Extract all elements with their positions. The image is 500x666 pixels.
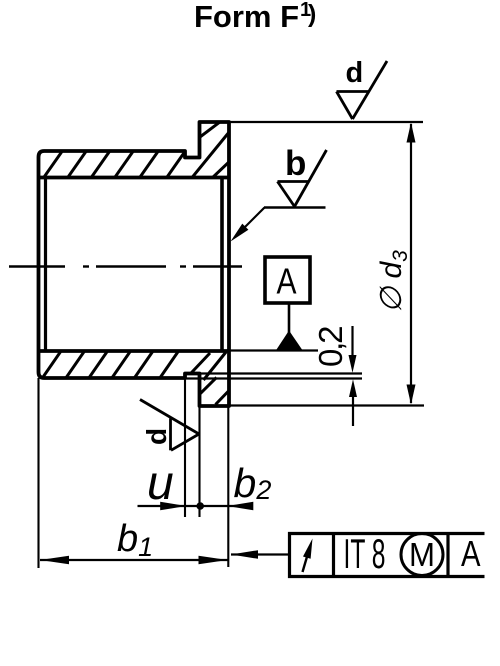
b2 arrow left-pointing — [227, 502, 253, 511]
hatching top wall — [42, 120, 230, 180]
svg-text:M: M — [409, 536, 435, 573]
FCF leader line — [231, 553, 289, 555]
b leader arrowhead — [231, 224, 249, 242]
title Form F1) — [194, 0, 316, 34]
surface symbol d top — [337, 61, 388, 119]
d3 arrow down — [407, 385, 416, 405]
svg-text:d: d — [141, 428, 172, 445]
datum surface extension line — [229, 349, 318, 351]
b1 arrow left — [40, 556, 69, 565]
svg-text:A: A — [461, 533, 481, 574]
b1 arrow right — [199, 556, 228, 565]
svg-text:A: A — [277, 261, 297, 302]
extension line undercut depth 0,2 upper — [200, 372, 363, 374]
surface symbol b — [278, 150, 327, 207]
b1 dimension line — [40, 559, 228, 561]
u dimension line — [138, 505, 254, 507]
datum triangle — [277, 331, 303, 350]
extension line left face b1 — [37, 378, 39, 568]
u arrow right-pointing — [160, 502, 186, 511]
extension line barrel surface 0,2 lower — [185, 377, 362, 379]
b leader line — [237, 208, 265, 236]
d3 dimension line — [410, 124, 412, 403]
hatching bottom wall — [41, 349, 230, 405]
bore top line — [39, 176, 229, 180]
svg-text:b1: b1 — [117, 518, 153, 562]
extension line flange bottom (d3) — [229, 404, 424, 406]
svg-text:b2: b2 — [234, 460, 272, 506]
0,2 dimension arrows — [351, 326, 353, 357]
part outline profile — [39, 122, 230, 406]
svg-text:∅ d3: ∅ d3 — [375, 250, 412, 313]
u/b2 boundary dot — [196, 502, 204, 510]
FCF divider 1 — [332, 534, 335, 577]
runout symbol arrow — [303, 555, 308, 572]
svg-text:b: b — [285, 144, 306, 183]
FCF leader arrowhead — [231, 550, 258, 559]
surface symbol d rotated (bottom) — [140, 400, 199, 451]
M circle modifier — [401, 534, 443, 576]
bore chamfer edge right — [220, 176, 224, 351]
extension line undercut u left — [184, 378, 186, 517]
svg-text:d: d — [346, 57, 364, 89]
extension line flange top (d3) — [229, 121, 423, 123]
datum A box — [265, 257, 310, 303]
svg-text:IT 8: IT 8 — [344, 530, 386, 577]
extension line flange left face u/b2 — [198, 406, 200, 517]
extension line flange right face b1/b2 — [227, 406, 229, 567]
b symbol shelf line — [264, 206, 326, 208]
svg-text:): ) — [308, 0, 316, 28]
bore bottom line — [39, 349, 229, 353]
FCF divider 2 — [446, 534, 449, 577]
feature control frame box — [290, 534, 485, 577]
svg-text:u: u — [147, 457, 174, 510]
svg-text:0,2: 0,2 — [312, 327, 349, 367]
svg-text:Form F: Form F — [194, 0, 299, 34]
d3 arrow up — [407, 123, 416, 143]
datum stem — [288, 303, 291, 333]
centerline — [9, 265, 242, 267]
bore chamfer edge left — [44, 178, 47, 352]
